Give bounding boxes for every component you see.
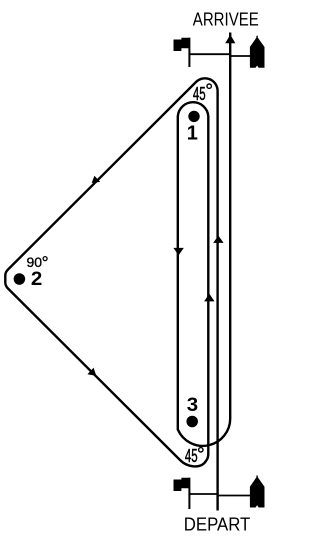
mark 3 (buoy) <box>186 416 198 428</box>
arrow up on finish leg (top, above ARRIVEE line) <box>225 35 235 44</box>
mark 1 (buoy) <box>188 111 199 122</box>
svg-text:2: 2 <box>31 269 42 290</box>
finish line (left segment, pole to finish leg) <box>189 53 230 55</box>
svg-text:DEPART: DEPART <box>184 514 251 534</box>
svg-text:ARRIVEE: ARRIVEE <box>193 9 259 29</box>
svg-text:45: 45 <box>193 84 206 104</box>
course line: start leg up, around triangle, finish leg up <box>5 33 230 511</box>
start line (left segment, pole to start leg) <box>189 493 217 495</box>
svg-text:45: 45 <box>185 446 198 466</box>
mark 2 (buoy) <box>14 273 26 285</box>
arrow down-right on lower diagonal <box>87 368 96 376</box>
svg-text:3: 3 <box>187 395 198 416</box>
svg-text:1: 1 <box>187 123 198 145</box>
committee boat (start) <box>250 476 265 508</box>
start line (right segment, start leg to boat) <box>218 495 250 497</box>
angle label 45 deg (bottom) <box>185 446 198 466</box>
arrow up on start leg <box>213 236 223 243</box>
label 3 <box>187 395 198 416</box>
finish line (right segment, finish leg to boat) <box>230 55 250 57</box>
svg-text:90: 90 <box>27 254 43 270</box>
finish flag pole <box>188 38 190 67</box>
start flag pole <box>188 478 190 509</box>
angle label 45 deg (top) <box>193 84 206 104</box>
finish flag <box>174 38 190 51</box>
arrow down-left on upper diagonal <box>92 176 101 183</box>
arrow up on oval right side <box>204 294 214 302</box>
start flag <box>174 478 190 491</box>
label 2 <box>31 269 42 290</box>
arrow down on oval left side <box>173 248 183 256</box>
committee boat (finish) <box>250 36 265 68</box>
